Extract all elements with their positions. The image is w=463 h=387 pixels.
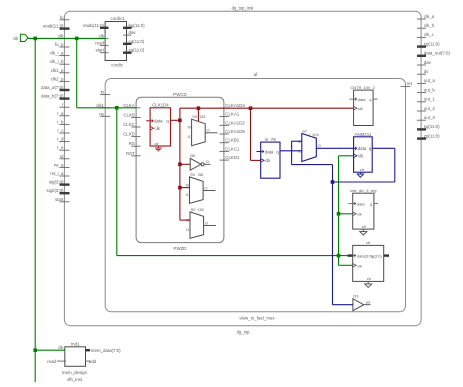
svg-text:md1: md1	[71, 342, 80, 347]
wire into buffer I33	[333, 304, 353, 306]
svg-text:clk: clk	[99, 33, 105, 38]
svg-text:I36: I36	[198, 172, 204, 177]
svg-text:clk_a: clk_a	[424, 14, 435, 19]
svg-text:O: O	[318, 143, 321, 148]
ANM211 pin data	[354, 147, 357, 150]
I38 output	[204, 225, 216, 227]
block af (slow_to_fast_mux)	[105, 79, 405, 312]
svg-text:dv: dv	[424, 69, 429, 74]
svg-text:cg(11:0): cg(11:0)	[424, 41, 440, 46]
svg-text:CLKD1: CLKD1	[225, 155, 240, 160]
CNTR_DIV_2 pin data	[349, 98, 353, 100]
svg-text:O: O	[206, 159, 209, 164]
PWCD right pins	[219, 108, 229, 160]
mux I33	[192, 119, 206, 146]
svg-text:clk2_p: clk2_p	[51, 76, 64, 81]
svg-text:out_a: out_a	[424, 78, 436, 83]
ctr pin clk	[353, 264, 356, 268]
svg-text:O: O	[205, 220, 208, 225]
block PWCD	[136, 97, 224, 242]
svg-text:bg(11:0): bg(11:0)	[129, 23, 146, 28]
svg-text:pd: pd	[366, 300, 370, 305]
svg-text:clk1: clk1	[96, 103, 104, 108]
wire clka1d4 net: drop to in_78 clk	[250, 108, 252, 160]
svg-text:CNTR_DIV_2: CNTR_DIV_2	[350, 85, 375, 90]
svg-text:data_b(7:0): data_b(7:0)	[41, 94, 64, 99]
svg-text:read: read	[95, 41, 104, 46]
svg-text:r_e: r_e	[57, 145, 64, 150]
svg-text:r_c: r_c	[57, 128, 64, 133]
svg-text:cordic1: cordic1	[111, 16, 126, 21]
svg-text:CLKD: CLKD	[123, 132, 135, 137]
svg-text:vfb_inst: vfb_inst	[67, 377, 83, 382]
svg-text:clk1_p: clk1_p	[51, 68, 64, 73]
buffer I33 (bottom)	[353, 299, 364, 311]
svg-text:out_2: out_2	[424, 106, 436, 111]
block cordic1	[105, 22, 126, 61]
svg-text:out_3: out_3	[424, 115, 436, 120]
svg-text:ANM211: ANM211	[355, 132, 372, 137]
svg-text:r_b: r_b	[57, 119, 64, 124]
svg-text:read: read	[47, 359, 56, 364]
svg-text:I33: I33	[200, 114, 206, 119]
junction clk/ctr	[337, 254, 341, 258]
junction clk/cntr5	[337, 212, 341, 216]
svg-text:ctr: ctr	[366, 240, 371, 245]
svg-text:CLKB: CLKB	[123, 112, 135, 117]
svg-text:clk: clk	[358, 154, 364, 159]
svg-text:dg_top_inst: dg_top_inst	[232, 6, 254, 11]
svg-text:r_d: r_d	[57, 137, 64, 142]
svg-text:slow_to_fast_mux: slow_to_fast_mux	[239, 316, 275, 321]
svg-text:sg(11:0): sg(11:0)	[424, 124, 440, 129]
wire clk net: long horizontal to ctr data	[117, 255, 348, 257]
wire clk net: vertical down inside af	[116, 108, 118, 256]
ctr pin data(3:0)	[348, 254, 353, 256]
junction clk/md1	[33, 37, 37, 41]
md1 pin mem_data(7:0)	[86, 349, 91, 351]
svg-text:clr: clr	[367, 276, 372, 281]
svg-text:ret: ret	[407, 81, 413, 86]
svg-text:sig(3:0): sig(3:0)	[49, 180, 64, 185]
input port clk	[20, 34, 28, 41]
wire clk net: vertical riser to ANM211	[338, 156, 340, 265]
mux I38	[190, 212, 204, 239]
block CNTR_DIV_2	[354, 90, 374, 125]
svg-text:clk_i_a: clk_i_a	[50, 51, 64, 56]
svg-text:fu_p: fu_p	[55, 42, 64, 47]
svg-text:I_104: I_104	[309, 132, 320, 137]
svg-text:zg(11:0): zg(11:0)	[129, 48, 145, 53]
svg-text:clk: clk	[358, 106, 363, 111]
wire feedback riser at mux	[291, 141, 293, 164]
svg-text:O: O	[204, 185, 207, 190]
svg-text:mem_design: mem_design	[62, 370, 88, 375]
svg-text:sig2(3:0): sig2(3:0)	[46, 188, 64, 193]
PWCD right pin labels	[225, 103, 245, 160]
cordic1 right pins	[123, 28, 132, 53]
svg-text:clk: clk	[265, 158, 271, 163]
svg-text:fu: fu	[60, 15, 64, 20]
cordic1 right pin labels	[129, 23, 146, 53]
I36 output	[203, 190, 215, 192]
svg-text:CLKA1D4: CLKA1D4	[225, 103, 245, 108]
svg-text:I33: I33	[353, 293, 359, 298]
wire clka1d4 net: stub to mux I36	[180, 187, 190, 189]
wire clka1d4 net: stub to inverter I30	[180, 163, 190, 165]
wire clk net: vertical into af	[76, 38, 78, 107]
flip-flop in_78 (blue)	[261, 142, 280, 178]
af right pin ret	[401, 85, 411, 87]
I30 output	[204, 163, 210, 165]
PWCD left pin labels	[123, 103, 135, 156]
af left pin labels	[96, 90, 104, 117]
wire clk net: stub to ctr clk	[339, 264, 353, 266]
svg-text:clk_b: clk_b	[424, 23, 435, 28]
svg-text:CLKA1D2: CLKA1D2	[225, 120, 245, 125]
svg-text:clk: clk	[13, 36, 19, 41]
wire feedback rail lower	[333, 181, 395, 183]
svg-text:in_78: in_78	[265, 137, 276, 142]
cntr_div_5_reg pin data	[349, 203, 353, 205]
wire clka1d4 net: stub into in_78 clk	[251, 159, 261, 161]
svg-text:RST: RST	[126, 151, 135, 156]
svg-text:CLKA1: CLKA1	[225, 112, 239, 117]
svg-text:data: data	[154, 119, 163, 124]
buffer I33 output	[364, 304, 371, 306]
wire clk net: stub to ANM211 clk	[339, 155, 354, 157]
CLK1D4 pin clk	[150, 126, 153, 130]
outer block dg_top_inst	[64, 11, 421, 326]
dg_top left pins	[60, 20, 70, 202]
svg-text:clk: clk	[58, 33, 64, 38]
md1 pin read	[57, 360, 66, 362]
svg-text:r_a: r_a	[57, 111, 64, 116]
svg-text:clk_c: clk_c	[424, 32, 435, 37]
svg-text:clk: clk	[155, 126, 161, 131]
svg-text:S0: S0	[190, 172, 196, 177]
junction blue feedback	[331, 180, 335, 184]
svg-text:clk_i_b: clk_i_b	[50, 59, 64, 64]
wire clk net: vertical drop to bottom edge	[34, 38, 36, 382]
svg-text:RS: RS	[129, 141, 135, 146]
svg-text:I30: I30	[190, 153, 196, 158]
wire mux I_104 output to ANM211 data	[316, 147, 353, 149]
md1 pin add	[86, 360, 91, 362]
svg-text:data_out(7:0): data_out(7:0)	[424, 51, 451, 56]
svg-text:start: start	[95, 48, 104, 53]
svg-text:start: start	[55, 197, 64, 202]
svg-text:S0: S0	[192, 114, 198, 119]
svg-text:rw_a: rw_a	[54, 162, 64, 167]
svg-text:CLKC: CLKC	[123, 122, 135, 127]
svg-text:ne: ne	[99, 111, 104, 116]
af left pins	[100, 95, 110, 117]
svg-text:cntr_div_5_reg: cntr_div_5_reg	[350, 188, 376, 193]
wire ANM211 q drop	[394, 148, 396, 182]
junction red inv	[178, 163, 182, 167]
wire clka1d4 net: vertical distribution	[179, 108, 181, 220]
counter ctr	[353, 245, 384, 281]
ANM211 pin clk	[354, 154, 357, 158]
svg-text:PWCD: PWCD	[173, 92, 186, 97]
register cntr_div_5_reg	[353, 193, 374, 229]
svg-text:data: data	[358, 97, 367, 102]
cordic1 left pins	[100, 28, 109, 53]
junction clk/af	[75, 37, 79, 41]
svg-text:q: q	[369, 97, 371, 102]
svg-text:CLKA: CLKA	[123, 103, 135, 108]
mux I_104 (blue)	[302, 134, 317, 162]
svg-text:dav: dav	[129, 30, 137, 35]
junction clk1/down	[115, 106, 119, 110]
svg-text:CLKA1D8: CLKA1D8	[225, 129, 245, 134]
svg-text:out_b: out_b	[424, 87, 436, 92]
mux I36	[190, 177, 204, 204]
svg-text:data_a(7:0): data_a(7:0)	[41, 85, 64, 90]
svg-text:clr: clr	[362, 224, 367, 229]
svg-text:zg(11:0): zg(11:0)	[424, 133, 440, 138]
svg-text:I38: I38	[198, 207, 204, 212]
wire feedback to mux I_104 input 0	[292, 140, 302, 142]
svg-text:data: data	[358, 146, 367, 151]
inverter I30	[190, 158, 204, 170]
wire clk net: branch to md1 clk	[35, 349, 65, 351]
register ANM211 (blue)	[354, 137, 373, 172]
svg-text:enab(11:0): enab(11:0)	[43, 24, 64, 29]
I33 output	[205, 132, 217, 134]
svg-text:dg_top: dg_top	[237, 329, 250, 334]
svg-text:clr: clr	[155, 141, 160, 146]
svg-text:clr: clr	[360, 167, 365, 172]
cntr_div_5_reg pin clk	[353, 212, 356, 216]
junction red q	[178, 119, 182, 123]
svg-text:clk: clk	[58, 345, 64, 350]
svg-text:q(3:0): q(3:0)	[371, 253, 382, 258]
CLK1D4 pin data	[146, 120, 150, 122]
svg-text:clk: clk	[357, 212, 362, 217]
svg-text:q: q	[370, 201, 372, 206]
svg-text:add: add	[89, 359, 97, 364]
junction red i36	[178, 186, 182, 190]
svg-text:PWZD: PWZD	[174, 246, 187, 251]
wire in_78 q to mux I_104 input	[280, 150, 302, 152]
wire clka1d4 net: CLK1D4 q output	[171, 119, 180, 121]
in_78 pin data	[257, 151, 261, 153]
svg-text:CLK1D4: CLK1D4	[152, 103, 169, 108]
cordic1 left pin labels	[83, 23, 105, 53]
svg-text:rd: rd	[60, 154, 64, 159]
svg-text:S0: S0	[191, 207, 197, 212]
svg-text:dav: dav	[424, 60, 432, 65]
dg_top right pins	[417, 19, 426, 139]
in_78 pin clk	[261, 159, 264, 163]
junction red sel	[197, 106, 201, 110]
wire clka1d4 net: stub to mux I38	[180, 219, 190, 221]
svg-text:rst_i_a: rst_i_a	[50, 171, 64, 176]
block md1 (mem_design)	[65, 347, 86, 367]
svg-text:data: data	[265, 149, 274, 154]
wire clk net: port to cordic clk	[28, 37, 105, 39]
wire clk net: horizontal to PWCD CLKA	[77, 107, 136, 109]
svg-text:CLKB1: CLKB1	[225, 138, 239, 143]
junction red in78	[249, 106, 253, 110]
svg-text:cg(11:0): cg(11:0)	[129, 39, 145, 44]
dg_top right pin labels	[424, 14, 451, 139]
svg-text:out_1: out_1	[424, 97, 436, 102]
svg-text:data: data	[357, 201, 366, 206]
flip-flop CLK1D4 (red)	[150, 108, 170, 146]
svg-text:O: O	[207, 128, 210, 133]
junction clk/md1clk	[33, 348, 37, 352]
wire ANM211 q output	[372, 147, 395, 149]
svg-text:CLKC1: CLKC1	[225, 146, 240, 151]
svg-text:in: in	[101, 90, 105, 95]
svg-text:mem_data(7:0): mem_data(7:0)	[91, 348, 121, 353]
wire clka1d4 net: drop to mux I33 select	[197, 108, 199, 121]
svg-text:enab(11:0): enab(11:0)	[83, 23, 104, 28]
CNTR_DIV_2 pin clk	[354, 106, 357, 110]
wire clk net: stub to cntr_div_5_reg clk	[339, 213, 353, 215]
PWCD left pins	[131, 108, 140, 156]
svg-text:clk: clk	[357, 264, 362, 269]
dg_top left pin labels	[41, 15, 64, 202]
wire feedback rail upper	[292, 164, 333, 166]
wire clka1d4 net: rail to CNTR_DIV_2 clk	[180, 107, 354, 109]
wire feedback vertical to buffer I33	[332, 165, 334, 305]
svg-text:cordic: cordic	[111, 63, 124, 68]
